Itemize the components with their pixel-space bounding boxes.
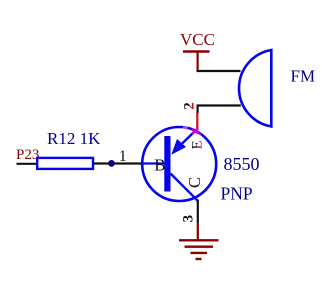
magenta arc segment on circle top [183, 126, 188, 129]
pin number 2 (red right half) [182, 102, 198, 110]
svg-text:P23: P23 [16, 147, 39, 163]
transistor emitter line [178, 130, 197, 148]
transistor base bar [164, 136, 170, 192]
pin number 2 (black left half) [182, 102, 198, 110]
svg-text:PNP: PNP [221, 183, 253, 203]
svg-text:3: 3 [181, 215, 197, 223]
pin name E (red right half) [190, 140, 206, 149]
junction dot [108, 160, 115, 167]
ground bar 1 [179, 239, 219, 241]
pin 2 emitter pin (red) [196, 113, 198, 130]
wire emitter corner to speaker bottom [198, 106, 241, 114]
ground bar 3 [191, 252, 208, 254]
wire P23 stub [17, 163, 39, 165]
transistor Q1 circle [142, 127, 216, 201]
transistor emitter arrowhead [171, 139, 186, 155]
svg-text:C: C [185, 177, 204, 188]
wire collector to ground [197, 200, 199, 224]
svg-text:FM: FM [291, 67, 316, 86]
svg-text:8550: 8550 [224, 154, 260, 174]
ground stem [197, 223, 199, 241]
pin name E (black left half) [190, 140, 206, 149]
resistor R12 body [37, 158, 93, 169]
ground bar 2 [185, 245, 214, 247]
power VCC stem [197, 52, 199, 72]
svg-text:B: B [154, 155, 165, 174]
ground bar 4 [196, 258, 202, 260]
transistor collector line [171, 174, 198, 201]
svg-text:R12 1K: R12 1K [47, 129, 101, 148]
junction pin2-circle magenta [192, 127, 202, 135]
speaker FM body [239, 50, 271, 127]
power VCC bar [183, 50, 210, 52]
wire VCC to speaker top [198, 70, 241, 71]
svg-text:1: 1 [119, 148, 127, 165]
wire resistor to base [93, 162, 144, 164]
svg-text:VCC: VCC [180, 30, 215, 49]
transistor base pin line [143, 162, 165, 164]
